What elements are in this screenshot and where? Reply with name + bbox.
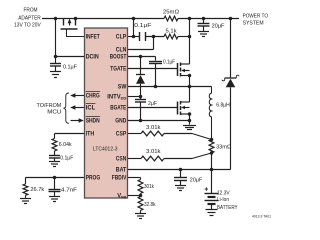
svg-text:MCU: MCU [47,110,61,116]
svg-text:TGATE: TGATE [110,67,126,73]
svg-text:CLN: CLN [116,48,127,54]
svg-text:5.1k: 5.1k [166,29,177,35]
svg-text:CSN: CSN [116,157,127,163]
svg-text:CHRG: CHRG [86,94,100,100]
svg-text:Li-Ion: Li-Ion [217,197,229,203]
svg-text:VFB: VFB [117,194,126,200]
svg-text:LTC4012-3: LTC4012-3 [93,147,118,153]
svg-text:12.3V: 12.3V [217,190,230,196]
svg-text:20μF: 20μF [212,24,226,30]
svg-text:26.7k: 26.7k [30,187,44,193]
svg-text:SYSTEM: SYSTEM [243,20,264,26]
svg-text:DCIN: DCIN [86,55,99,61]
svg-text:+: + [204,186,208,193]
svg-text:SHDN: SHDN [86,119,100,125]
svg-text:BOOST: BOOST [110,55,127,61]
svg-text:CSP: CSP [116,132,127,138]
svg-text:0.1μF: 0.1μF [63,64,78,70]
svg-text:20μF: 20μF [190,177,203,183]
svg-text:CLP: CLP [116,35,127,41]
svg-text:SW: SW [118,85,127,91]
svg-text:POWER TO: POWER TO [243,13,269,19]
svg-text:4.7nF: 4.7nF [61,187,78,193]
svg-text:PROG: PROG [86,176,101,182]
svg-text:3.01k: 3.01k [146,149,161,155]
svg-text:301k: 301k [144,184,154,190]
svg-text:6.8μH: 6.8μH [216,103,230,109]
svg-text:6.04k: 6.04k [59,142,72,148]
svg-text:INFET: INFET [86,35,100,41]
svg-text:FROM: FROM [24,8,38,14]
svg-text:ADAPTER: ADAPTER [18,15,41,21]
svg-text:0.1μF: 0.1μF [163,59,176,65]
svg-text:13V TO 20V: 13V TO 20V [14,23,41,29]
svg-text:4012-3 TA01: 4012-3 TA01 [252,215,271,219]
svg-text:ICL: ICL [86,106,96,112]
svg-text:FBDIV: FBDIV [112,176,127,182]
svg-text:ITH: ITH [86,132,95,138]
svg-text:2μF: 2μF [148,101,158,107]
svg-text:33mΩ: 33mΩ [216,144,231,150]
svg-text:BATTERY: BATTERY [217,205,238,211]
svg-text:3.01k: 3.01k [146,125,161,131]
svg-text:25mΩ: 25mΩ [163,9,179,15]
svg-text:INTVDD: INTVDD [107,95,126,101]
svg-text:32.8k: 32.8k [144,202,156,208]
svg-text:BGATE: BGATE [110,106,126,112]
svg-text:TO/FROM: TO/FROM [37,103,62,109]
svg-text:GND: GND [115,119,127,125]
svg-text:BAT: BAT [116,168,127,174]
svg-text:0.1μF: 0.1μF [134,23,152,29]
svg-text:0.1μF: 0.1μF [60,155,74,161]
